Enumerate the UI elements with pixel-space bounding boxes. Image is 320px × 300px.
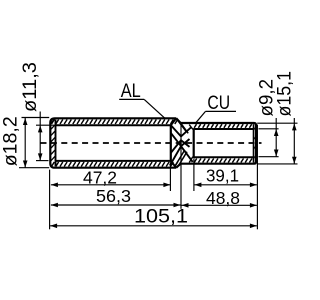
dimension 56,3 line [51, 203, 181, 208]
CU bottom wall hatch [194, 159, 252, 163]
CU right end band hatch [254, 127, 256, 158]
svg-text:CU: CU [207, 93, 230, 114]
dimension 48,8 line [182, 203, 257, 208]
label CU leader [196, 111, 236, 122]
step diagonal top [176, 118, 180, 123]
extension line outer bottom right [257, 163, 297, 165]
CU bore end wall [193, 128, 195, 158]
dimension 47,2 text [83, 167, 117, 187]
dimension 39,1 line [194, 183, 257, 188]
weld seam chevron Lm [170, 146, 193, 165]
AL bore top line [56, 124, 171, 126]
extension line joint [180, 124, 182, 209]
CU right end inner line [253, 124, 255, 162]
dimension ø9,2 text [256, 79, 277, 117]
dimension ø15,1 text [275, 71, 296, 117]
label AL leader [119, 99, 165, 118]
AL bore end top chamfer [171, 118, 176, 125]
extension line CU bore depth [193, 159, 195, 192]
AL barrel outer contour [50, 118, 176, 167]
dimension 39,1 text [206, 166, 239, 186]
AL left end inner line [55, 120, 57, 167]
AL bore end bottom chamfer [171, 161, 176, 168]
extension line bore bottom right [259, 156, 279, 158]
extension line bore bottom left [36, 160, 49, 162]
dimension 48,8 text [206, 188, 240, 208]
CU bore top line [194, 128, 254, 130]
extension line bore top left [36, 124, 54, 126]
weld zone hatch [174, 119, 193, 168]
svg-text:48,8: 48,8 [206, 188, 240, 208]
extension line outer top left [22, 117, 50, 119]
CU top wall hatch [194, 124, 252, 128]
dimension ø11,3 text [19, 62, 41, 112]
extension line right end [256, 125, 258, 230]
dimension 56,3 text [96, 186, 131, 206]
dimension 105,1 text [134, 206, 188, 227]
extension line AL bore depth [169, 162, 171, 191]
svg-text:105,1: 105,1 [134, 206, 188, 227]
svg-text:ø15,1: ø15,1 [275, 71, 296, 117]
CU barrel outer contour [181, 123, 256, 164]
label AL text [121, 81, 141, 102]
extension line left end [49, 170, 51, 230]
dimension ø11,3 line [38, 112, 43, 161]
AL bore bottom line [56, 160, 171, 162]
AL bore end wall [170, 124, 172, 161]
weld seam chevron L2 [171, 140, 190, 153]
AL top wall hatch [52, 120, 178, 125]
svg-text:47,2: 47,2 [83, 167, 117, 187]
dimension ø9,2 line [274, 118, 279, 157]
dimension 47,2 line [51, 183, 170, 188]
CU bore bottom line [194, 156, 254, 158]
dimension ø18,2 text [0, 116, 22, 166]
svg-text:56,3: 56,3 [96, 186, 131, 206]
step diagonal bottom [176, 164, 180, 168]
centerline (dash) [41, 142, 262, 144]
label CU text [207, 93, 230, 114]
AL bottom wall hatch [52, 162, 178, 167]
extension line outer bottom left [19, 167, 49, 169]
dimension ø18,2 line [23, 118, 28, 168]
dimension 105,1 line [50, 224, 257, 229]
svg-text:ø18,2: ø18,2 [0, 116, 22, 166]
extension line bore top right [259, 128, 279, 130]
AL left end band hatch [51, 118, 55, 160]
svg-text:39,1: 39,1 [206, 166, 239, 186]
svg-text:ø11,3: ø11,3 [19, 62, 41, 112]
extension line outer top right [257, 122, 297, 124]
dimension ø15,1 line [292, 118, 297, 164]
weld seam chevron V2 [171, 133, 190, 146]
weld seam chevron V1 [171, 125, 191, 136]
